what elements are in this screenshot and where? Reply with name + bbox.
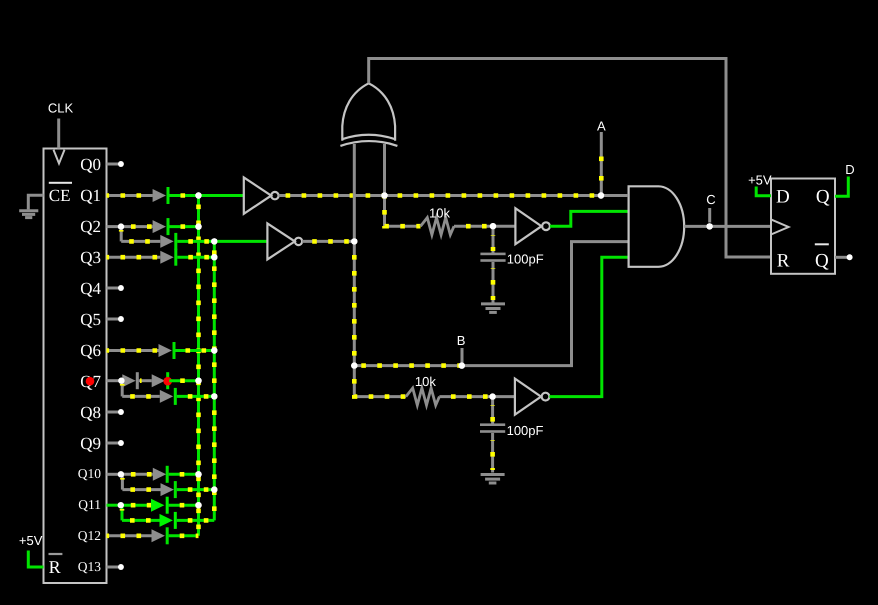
svg-text:C: C [706, 192, 715, 207]
svg-text:D: D [776, 186, 790, 207]
capacitor C2 wire [491, 397, 494, 424]
wire Q10 to diode [121, 473, 153, 476]
junction node B [459, 362, 465, 368]
pin Q10 post [107, 471, 124, 477]
pin Q13 stub [107, 564, 124, 570]
svg-text:10k: 10k [429, 205, 450, 220]
svg-text:R: R [777, 250, 790, 271]
red marker on Q7 label [86, 377, 95, 386]
resistor R2 10k [406, 388, 440, 405]
svg-text:CLK: CLK [48, 100, 74, 115]
node B stub [461, 348, 464, 363]
svg-text:100pF: 100pF [507, 252, 544, 267]
diode D8 (Q7b) [160, 388, 177, 405]
wire U5 output green [550, 211, 629, 226]
diode D13 (Q12) [152, 527, 169, 544]
svg-text:+5V: +5V [748, 173, 772, 188]
svg-text:Q0: Q0 [80, 155, 101, 174]
wire Q6 to diode [107, 349, 159, 352]
svg-text:Q3: Q3 [80, 248, 101, 267]
wire Q7b to diode [122, 395, 160, 398]
ground G2 [481, 475, 505, 484]
wire node to schmitt U5 [493, 225, 515, 228]
wire AND output [684, 225, 771, 228]
schmitt inverter U5 [515, 208, 549, 244]
pin label CE [49, 182, 72, 205]
junction bus1/Q1 [195, 192, 201, 198]
wire Q output to node D [835, 177, 848, 197]
junction node C [706, 223, 712, 229]
wire Q2 drop [120, 227, 123, 242]
wire R1 to node [454, 225, 493, 228]
wire D6 to D7 [139, 379, 152, 382]
pin Q2 post [107, 224, 125, 230]
inverter U3 [267, 223, 302, 259]
diode D7 (Q7 second) [152, 372, 170, 389]
inverter U2 [244, 177, 279, 213]
counter chip U1 [44, 149, 107, 584]
wire Q10b to diode [122, 488, 160, 491]
svg-text:Q11: Q11 [78, 497, 101, 512]
wire +5V to D input [756, 187, 771, 196]
junction bus2/Q2b [211, 238, 217, 244]
wire Qbar stub [835, 254, 853, 260]
wire Q2 to diode [121, 225, 153, 228]
pin Q11 post [107, 502, 124, 508]
wire xor output top [369, 59, 771, 258]
wire +5V to R pin [28, 551, 43, 568]
svg-text:Q: Q [816, 186, 830, 207]
svg-text:10k: 10k [415, 374, 436, 389]
diode D4 (Q3) [160, 249, 177, 266]
svg-text:Q10: Q10 [78, 466, 101, 481]
svg-text:Q1: Q1 [80, 186, 101, 205]
junction dots top layer [118, 192, 713, 508]
junction bus2/Q7b [211, 393, 217, 399]
svg-text:Q5: Q5 [80, 310, 101, 329]
wire CLK stub [57, 119, 60, 149]
diode D3 (Q2b) [160, 233, 177, 250]
svg-text:100pF: 100pF [507, 423, 544, 438]
xor gate U4 [340, 83, 397, 146]
pin Q5 stub [107, 316, 124, 322]
wire bus1 to inverter1 input [199, 194, 244, 197]
wire drop to resistor R2 [354, 366, 406, 397]
U8 clock triangle [771, 219, 789, 234]
wire D8 to bus2 [177, 395, 215, 398]
wire B row [354, 364, 462, 367]
clock input triangle [54, 150, 65, 164]
wire inverter U2 output [279, 194, 629, 197]
svg-text:B: B [457, 333, 466, 348]
wire Q7 drop [121, 381, 124, 397]
wire inverter U3 output [302, 240, 354, 243]
svg-text:Q12: Q12 [78, 528, 101, 543]
wire C1 to ground [492, 262, 495, 303]
wire bus2 to inverter2 input [214, 240, 267, 243]
wire D1 to bus1 [170, 194, 199, 197]
svg-text:Q2: Q2 [80, 217, 101, 236]
svg-text:Q8: Q8 [80, 403, 101, 422]
schmitt inverter U6 [515, 379, 549, 415]
svg-text:R: R [49, 557, 61, 577]
svg-text:+5V: +5V [19, 533, 43, 548]
junction bus1/Q10 [195, 471, 201, 477]
svg-text:Q6: Q6 [80, 341, 101, 360]
bus1 vertical [197, 196, 200, 536]
junction B left [351, 362, 357, 368]
wire D7 to bus1 [169, 379, 198, 382]
junction R2/C2 node [489, 393, 495, 399]
wire Q1 to diode [107, 194, 153, 197]
diode D1 (Q1) [153, 187, 170, 204]
and gate U7 [629, 186, 685, 266]
capacitor C1 wire [492, 226, 495, 253]
wire Q11 to diode [121, 504, 151, 507]
wire D4 to bus2 [177, 256, 214, 259]
junction bus2/Q6 [211, 347, 217, 353]
d flip-flop U8 [771, 179, 835, 274]
wire xor right input vertical [383, 144, 386, 196]
wire Q10 drop [121, 474, 124, 489]
junction bus2/Q3 [211, 254, 217, 260]
diode D12 (Q11b, conducting) [160, 512, 177, 529]
wire Q11 drop [121, 505, 124, 520]
wire B to AND input [462, 242, 628, 366]
diode D11 (Q11, conducting) [151, 497, 169, 514]
diode D10 (Q10b) [161, 481, 177, 498]
wire R2 to node [439, 395, 492, 398]
wire xor left input vertical [353, 144, 356, 366]
diode D9 (Q10) [153, 466, 169, 483]
junction bus1/Q2 [195, 223, 201, 229]
junction XOR right input [381, 192, 387, 198]
diode D5 (Q6) [159, 342, 176, 359]
pin Q7 post [107, 378, 125, 384]
wire CE to ground [28, 195, 43, 209]
junction bus1/Q7 [195, 378, 201, 384]
diode D6 (Q7 first) [122, 372, 139, 389]
junction R1/C1 node [490, 223, 496, 229]
wire A node to AND input1 [601, 194, 628, 197]
pin Q9 stub [107, 440, 124, 446]
capacitor C2 [480, 423, 505, 432]
junction bus1/Q11 [195, 502, 201, 508]
wire D5 to bus2 [176, 349, 215, 352]
wire Q3 to diode [107, 256, 161, 259]
wire D3 to bus2 [177, 240, 214, 243]
wire D13 to bus1 end [169, 534, 199, 537]
pin Q4 stub [107, 285, 124, 291]
svg-text:A: A [597, 118, 606, 133]
svg-text:Q13: Q13 [78, 559, 101, 574]
bus2 vertical [213, 241, 216, 520]
wire U6 output green [549, 257, 628, 396]
wire D2 to bus1 [170, 225, 199, 228]
pin label R-bar [49, 553, 63, 577]
U8 pin label Qbar [815, 243, 829, 271]
junction node A [598, 192, 604, 198]
pin Q0 stub [107, 161, 124, 167]
capacitor C1 [480, 253, 505, 262]
svg-text:Q: Q [815, 250, 829, 271]
wire Q2b to diode [121, 240, 160, 243]
resistor R1 10k [421, 218, 455, 235]
node A stub [599, 132, 604, 196]
wire D9 to bus1 [169, 473, 199, 476]
wire Q12 to diode [107, 534, 152, 537]
wire D11 to bus1 [169, 504, 199, 507]
wire Q11b to diode [122, 519, 160, 522]
pin Q8 stub [107, 409, 124, 415]
svg-text:Q4: Q4 [80, 279, 101, 298]
wire D10 to bus2 [177, 488, 215, 491]
pin labels Q0-Q13 [78, 155, 102, 574]
wire D12 to bus2 end [177, 519, 215, 522]
wire drop to resistor R1 [385, 196, 421, 227]
wire node to schmitt U6 [493, 395, 515, 398]
wire C2 to ground [491, 433, 494, 473]
svg-text:CE: CE [49, 186, 71, 205]
svg-text:Q9: Q9 [80, 434, 101, 453]
ground G1 [481, 304, 505, 313]
ground at CE [19, 211, 38, 218]
red marker on D7 cathode [163, 377, 172, 386]
junction bus2/Q10b [211, 486, 217, 492]
node C stub [708, 208, 711, 223]
svg-text:D: D [845, 162, 854, 177]
diode D2 (Q2) [153, 218, 170, 235]
junction XOR left input [351, 238, 357, 244]
